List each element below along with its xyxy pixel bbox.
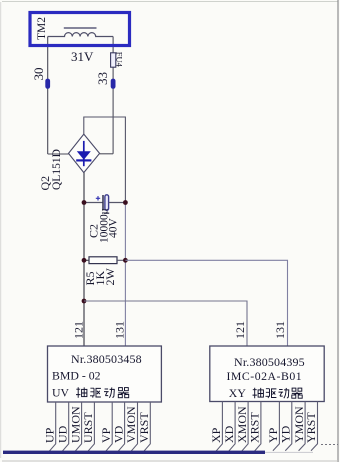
wire XMON bbox=[242, 402, 249, 452]
terminal on wire 30 bbox=[45, 79, 50, 89]
svg-text:VRST: VRST bbox=[137, 412, 151, 443]
svg-text:121: 121 bbox=[233, 321, 247, 339]
svg-text:2W: 2W bbox=[103, 268, 117, 286]
svg-text:QL151D: QL151D bbox=[51, 149, 63, 190]
bridge rectifier Q2 diamond bbox=[69, 134, 100, 173]
svg-text:XY: XY bbox=[229, 386, 247, 400]
svg-text:30: 30 bbox=[31, 68, 46, 81]
page edge top bbox=[2, 1, 338, 3]
wire: bridge + output (top vertex up, right, down) bbox=[84, 117, 126, 203]
svg-text:YRST: YRST bbox=[304, 412, 318, 443]
svg-text:33: 33 bbox=[95, 72, 110, 85]
resistor R5 bbox=[89, 257, 117, 264]
wire 30 (left secondary lead) bbox=[47, 37, 49, 155]
junction dot (R5 left) bbox=[82, 258, 87, 263]
page edge left bbox=[0, 2, 2, 458]
svg-text:UV: UV bbox=[52, 386, 70, 400]
CJK 轴驱动器 (box1) bbox=[76, 387, 129, 398]
fuse FU4 bbox=[111, 53, 116, 67]
svg-text:Q2: Q2 bbox=[38, 176, 52, 191]
transformer core bar bbox=[64, 27, 97, 29]
terminal on wire 33 bbox=[111, 79, 116, 89]
svg-text:BMD - 02: BMD - 02 bbox=[52, 369, 101, 383]
wire UMON bbox=[75, 402, 82, 451]
CJK 轴驱动器 (box2) bbox=[253, 388, 303, 399]
C2 polarity + bbox=[96, 196, 100, 200]
bus bar bottom bbox=[3, 451, 265, 454]
wire URST bbox=[88, 402, 95, 451]
transformer winding L1 bbox=[48, 33, 113, 37]
junction dot (C2 left) bbox=[82, 200, 87, 205]
driver box U1 BMD-02 bbox=[48, 346, 162, 402]
wire YMON bbox=[299, 402, 306, 451]
wire: + bus down to box1 pin 131 bbox=[124, 203, 126, 347]
svg-text:URST: URST bbox=[81, 412, 95, 443]
dotted line near YRST bbox=[321, 444, 338, 446]
svg-text:131: 131 bbox=[273, 321, 287, 339]
svg-text:FU4: FU4 bbox=[115, 52, 125, 68]
capacitor C2 (electrolytic, horizontal) bbox=[84, 202, 103, 204]
svg-text:YD: YD bbox=[279, 425, 293, 443]
wire XRST bbox=[254, 402, 261, 452]
wire 33 (right secondary lead) bbox=[112, 37, 114, 154]
wire UD bbox=[62, 402, 68, 451]
wire YD bbox=[285, 402, 292, 451]
svg-text:XRST: XRST bbox=[248, 412, 262, 443]
junction dot (minus rail) bbox=[82, 299, 87, 304]
svg-text:UP: UP bbox=[42, 427, 56, 443]
svg-text:VD: VD bbox=[111, 425, 125, 443]
wire VMON bbox=[131, 402, 138, 451]
svg-text:40V: 40V bbox=[108, 218, 120, 239]
wire 30 to bridge left vertex bbox=[48, 153, 69, 155]
wire VP bbox=[106, 402, 113, 451]
transformer TM2 box bbox=[30, 13, 130, 46]
wire XP bbox=[216, 402, 223, 452]
wire + rail to box2 pin 131 bbox=[125, 260, 287, 346]
svg-text:Nr.380504395: Nr.380504395 bbox=[234, 355, 305, 369]
wire VD bbox=[118, 402, 125, 451]
wire XD bbox=[229, 402, 236, 452]
svg-text:121: 121 bbox=[72, 321, 86, 339]
page edge right bbox=[337, 0, 339, 462]
svg-text:Nr.380503458: Nr.380503458 bbox=[71, 352, 142, 366]
wire - rail to box2 pin 121 bbox=[84, 301, 247, 346]
wire 33 to bridge right vertex bbox=[100, 153, 114, 155]
faint bus continuation bbox=[265, 451, 313, 453]
wire VRST bbox=[144, 402, 151, 451]
svg-text:131: 131 bbox=[113, 321, 127, 339]
wire YRST bbox=[311, 402, 318, 451]
svg-text:XD: XD bbox=[222, 425, 236, 443]
page edge bottom bbox=[2, 460, 338, 462]
wire UP bbox=[49, 402, 56, 451]
wire: bridge - output (bottom vertex down) bbox=[83, 173, 85, 346]
driver box U2 IMC-02A-B01 bbox=[210, 346, 324, 402]
wire YP bbox=[273, 402, 280, 451]
svg-text:UD: UD bbox=[55, 425, 69, 443]
junction dot (R5 right) bbox=[123, 258, 128, 263]
junction dot (C2 right) bbox=[123, 200, 128, 205]
svg-text:TM2: TM2 bbox=[36, 17, 48, 40]
svg-text:IMC-02A-B01: IMC-02A-B01 bbox=[227, 369, 303, 383]
svg-text:31V: 31V bbox=[71, 49, 94, 64]
diode inside Q2 bbox=[76, 141, 91, 166]
